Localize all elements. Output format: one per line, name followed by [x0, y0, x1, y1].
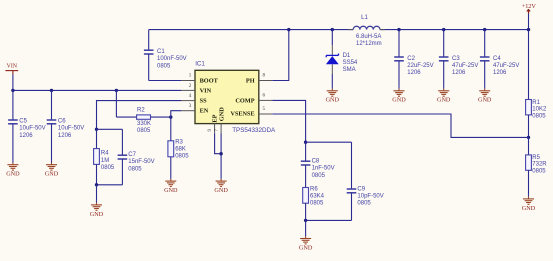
svg-text:R6: R6 [310, 187, 318, 193]
value label D1 [343, 53, 358, 73]
svg-text:C5: C5 [19, 119, 27, 125]
svg-text:10K2: 10K2 [532, 107, 547, 113]
svg-text:SS: SS [200, 98, 208, 105]
svg-text:GND: GND [478, 97, 492, 104]
capacitor C3 [439, 30, 449, 87]
svg-text:TPS54332DDA: TPS54332DDA [232, 127, 276, 134]
junction R4/C7 top node [95, 128, 98, 131]
op-amp U: IC1 TPS54332DDA body [195, 70, 259, 123]
svg-text:COMP: COMP [235, 98, 254, 105]
wire divider to ground [96, 185, 98, 201]
svg-text:IC1: IC1 [195, 61, 205, 68]
svg-text:10uF-50V: 10uF-50V [58, 126, 84, 132]
svg-text:D1: D1 [343, 53, 351, 59]
wire C1 to BOOT [149, 80, 182, 82]
svg-text:C8: C8 [312, 159, 320, 165]
svg-text:0805: 0805 [357, 201, 371, 207]
pin 5 VSENSE stub [259, 113, 273, 115]
pin 9 EP stub [214, 124, 216, 134]
value label C3 label [452, 56, 478, 76]
ground IC ground [214, 177, 228, 195]
wire switch node bus [149, 29, 354, 31]
resistor R3 [168, 117, 174, 176]
junction output corner [527, 28, 530, 31]
svg-text:1206: 1206 [452, 70, 466, 76]
wire comp bottom tie [306, 219, 352, 221]
wire comp top tie [306, 141, 352, 143]
junction feedback node [527, 136, 530, 139]
value label R5 label [532, 155, 547, 174]
junction C4 tap [483, 28, 486, 31]
net flag VIN [5, 63, 18, 74]
junction C2 tap [397, 28, 400, 31]
net flag +12V [522, 3, 537, 14]
svg-text:C1: C1 [157, 49, 165, 55]
value label R6 label [310, 187, 325, 207]
svg-text:68K: 68K [175, 147, 186, 153]
svg-text:6.8uH-5A: 6.8uH-5A [356, 34, 381, 40]
svg-text:0805: 0805 [157, 63, 171, 69]
svg-text:47uF-25V: 47uF-25V [493, 63, 519, 69]
ground R5 ground [522, 194, 536, 212]
svg-text:22uF-25V: 22uF-25V [407, 63, 433, 69]
wire EN to node [171, 111, 182, 117]
svg-text:GND: GND [219, 107, 226, 121]
inductor L1 [348, 26, 385, 29]
pin 7 GND stub [220, 124, 222, 134]
resistor R6 [303, 188, 309, 221]
resistor R2 [116, 115, 170, 119]
capacitor C5 [8, 90, 18, 160]
svg-text:L1: L1 [361, 15, 368, 21]
svg-text:1206: 1206 [493, 70, 507, 76]
svg-text:10pF-50V: 10pF-50V [357, 193, 383, 199]
svg-text:0805: 0805 [532, 113, 546, 119]
svg-text:C7: C7 [128, 152, 136, 158]
svg-text:0805: 0805 [312, 173, 326, 179]
capacitor C8 [301, 142, 311, 187]
value label R2 [137, 108, 151, 134]
ground C5 ground [6, 160, 20, 178]
value label L1 [356, 34, 382, 47]
svg-text:GND: GND [299, 244, 313, 251]
junction R2 tap [115, 89, 118, 92]
svg-text:VIN: VIN [7, 63, 18, 69]
svg-text:R1: R1 [532, 100, 540, 106]
wire PH to switch node [272, 30, 289, 81]
wire VIN bus [13, 89, 182, 91]
svg-text:0805: 0805 [310, 200, 324, 206]
svg-text:GND: GND [6, 171, 20, 178]
svg-text:PH: PH [246, 78, 255, 85]
pin 3 EN stub [181, 110, 195, 112]
value label C2 label [407, 56, 433, 76]
capacitor C1 [144, 30, 154, 81]
svg-text:GND: GND [522, 205, 536, 212]
value label C7 label [128, 152, 154, 172]
capacitor C9 [347, 142, 357, 220]
wire VIN bus to R2 [115, 90, 117, 117]
junction C6 tap [50, 89, 53, 92]
svg-text:732R: 732R [532, 162, 547, 168]
wire +12V to bus [528, 14, 530, 30]
resistor R4 [94, 129, 100, 185]
capacitor C6 [47, 90, 57, 160]
junction comp top node [304, 141, 307, 144]
wire IC GND pin to ground [220, 134, 222, 177]
wire COMP to network [272, 100, 305, 142]
ground C4 ground [478, 86, 492, 104]
svg-text:0805: 0805 [101, 165, 115, 171]
svg-text:C4: C4 [493, 56, 501, 62]
wire top tie to C7 [97, 128, 123, 130]
pin 2 VIN stub [181, 89, 195, 91]
junction EP/GND join [219, 152, 222, 155]
svg-text:1M: 1M [101, 158, 109, 164]
svg-text:R5: R5 [532, 155, 540, 161]
svg-text:1206: 1206 [58, 133, 72, 139]
svg-text:R2: R2 [137, 108, 145, 114]
svg-text:R4: R4 [101, 151, 109, 157]
svg-text:1206: 1206 [19, 133, 33, 139]
svg-text:330K: 330K [137, 121, 151, 127]
pin 4 SS stub [181, 100, 195, 102]
wire VIN flag to bus [12, 75, 14, 91]
svg-text:0805: 0805 [137, 128, 151, 134]
svg-text:47uF-25V: 47uF-25V [452, 63, 478, 69]
svg-text:C2: C2 [407, 56, 415, 62]
svg-text:R3: R3 [175, 139, 183, 145]
wire comp to ground [305, 220, 307, 234]
value label R1 label [532, 100, 547, 119]
value label R3 label [175, 139, 189, 159]
diode D1 [326, 30, 339, 87]
value label R4 label [101, 151, 115, 171]
value label C4 label [493, 56, 519, 76]
svg-text:10uF-50V: 10uF-50V [19, 126, 45, 132]
junction R2/R3/EN node [169, 115, 172, 118]
junction PH node [287, 28, 290, 31]
svg-text:GND: GND [214, 187, 228, 194]
svg-text:SMA: SMA [343, 67, 356, 73]
wire EP to ground [215, 134, 222, 154]
ground C2 ground [392, 86, 406, 104]
ground R4 ground [90, 200, 104, 218]
junction D1 node [331, 28, 334, 31]
wire VSENSE feedback [272, 114, 528, 137]
svg-text:15nF-50V: 15nF-50V [128, 159, 154, 165]
svg-text:GND: GND [90, 211, 104, 218]
svg-text:SS54: SS54 [343, 60, 358, 66]
svg-text:C3: C3 [452, 56, 460, 62]
svg-text:EP: EP [212, 114, 219, 122]
junction C3 tap [442, 28, 445, 31]
wire bottom tie R4-C7 [97, 184, 123, 186]
ground C6 ground [45, 160, 59, 178]
svg-text:1nF-50V: 1nF-50V [312, 166, 335, 172]
value label C6 label [58, 119, 84, 139]
svg-text:0805: 0805 [175, 154, 189, 160]
resistor R1 [526, 30, 532, 138]
svg-text:1206: 1206 [407, 70, 421, 76]
pin 6 COMP stub [259, 99, 273, 101]
value label C9 label [357, 187, 383, 207]
svg-text:0805: 0805 [532, 168, 546, 174]
junction VIN entry [11, 89, 14, 92]
svg-text:GND: GND [437, 97, 451, 104]
svg-text:GND: GND [164, 187, 178, 194]
svg-text:BOOT: BOOT [200, 78, 219, 85]
junction R4/C7 bottom node [95, 183, 98, 186]
svg-text:GND: GND [326, 97, 340, 104]
svg-text:GND: GND [392, 97, 406, 104]
wire output bus [380, 29, 529, 31]
wire SS to divider [97, 101, 182, 130]
ground R3 ground [164, 177, 178, 195]
ground compensation ground [299, 234, 313, 252]
svg-text:12*12mm: 12*12mm [356, 41, 382, 47]
svg-text:EN: EN [200, 108, 209, 115]
ground C3 ground [437, 86, 451, 104]
resistor R5 [526, 137, 532, 194]
value label C1 label [157, 49, 187, 69]
svg-text:VIN: VIN [200, 88, 212, 95]
pin 1 BOOT stub [181, 80, 195, 82]
value label C8 label [312, 159, 335, 179]
svg-text:0805: 0805 [128, 166, 142, 172]
svg-text:GND: GND [45, 171, 59, 178]
svg-text:C9: C9 [357, 187, 365, 193]
pin 8 PH stub [259, 80, 273, 82]
capacitor C4 [480, 30, 490, 87]
svg-text:+12V: +12V [522, 3, 537, 10]
junction comp bottom node [304, 219, 307, 222]
ground D1 ground [326, 86, 340, 104]
value label C5 label [19, 119, 45, 139]
capacitor C2 [394, 30, 404, 87]
capacitor C7 [118, 129, 128, 185]
svg-text:VSENSE: VSENSE [231, 111, 255, 118]
svg-text:C6: C6 [58, 119, 66, 125]
svg-text:100nF-50V: 100nF-50V [157, 56, 187, 62]
svg-text:63K4: 63K4 [310, 193, 325, 199]
